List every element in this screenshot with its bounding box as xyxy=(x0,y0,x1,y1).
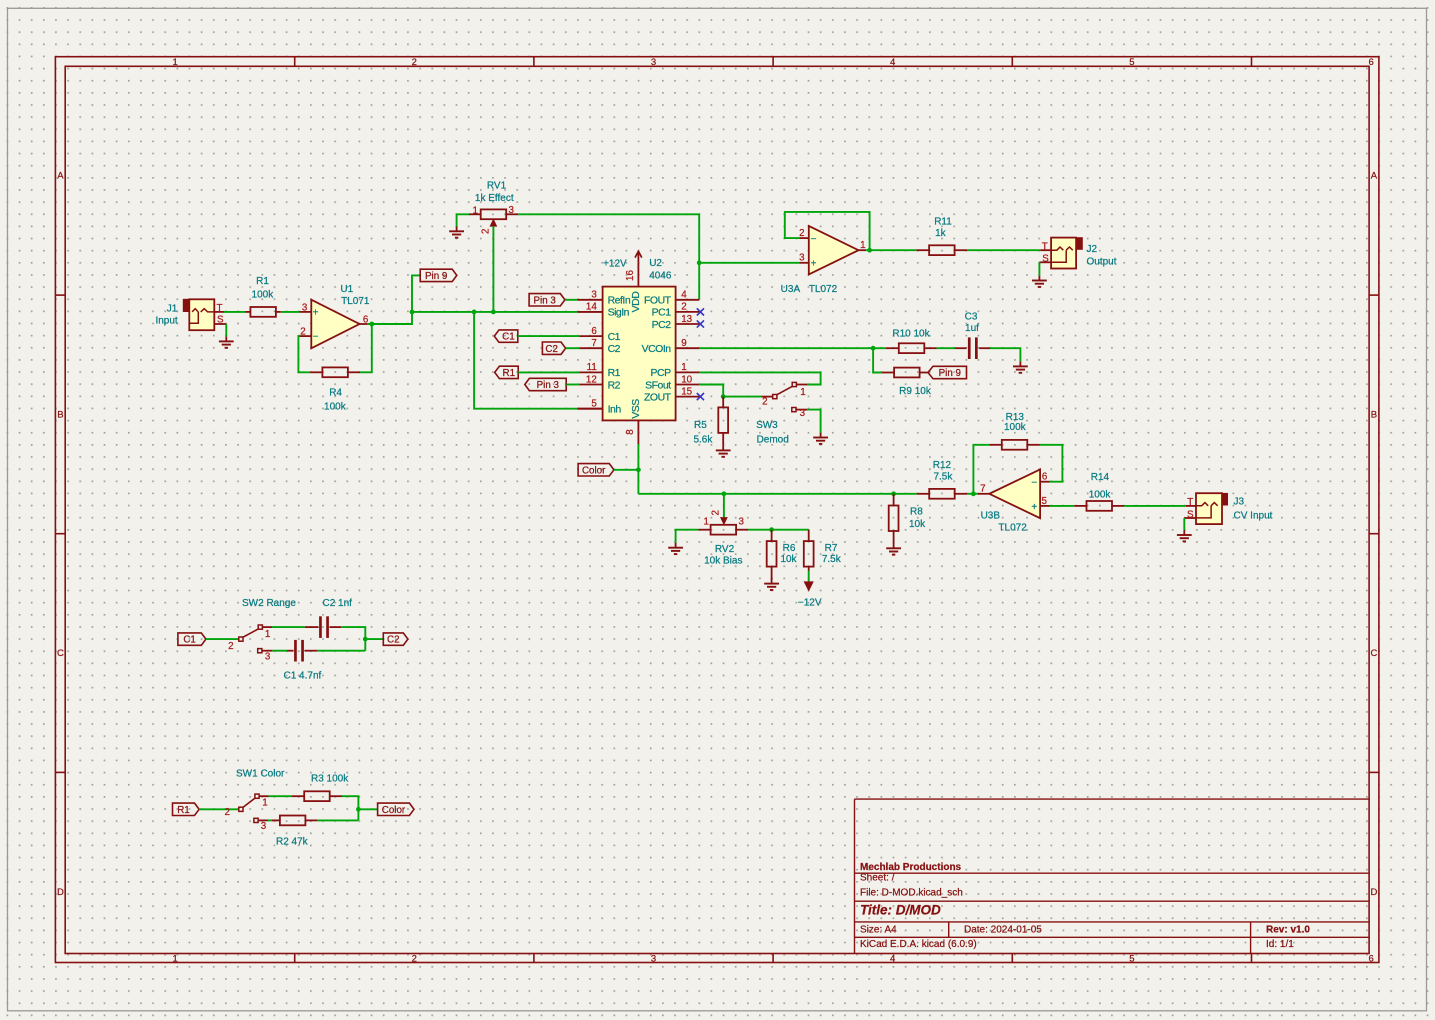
svg-text:1: 1 xyxy=(265,629,270,640)
svg-text:PC2: PC2 xyxy=(652,319,672,331)
svg-text:+: + xyxy=(313,307,319,318)
svg-text:−: − xyxy=(1031,478,1037,489)
svg-text:4046: 4046 xyxy=(649,270,672,281)
svg-text:1: 1 xyxy=(704,517,709,528)
svg-text:J2: J2 xyxy=(1087,244,1098,255)
svg-text:C1 4.7nf: C1 4.7nf xyxy=(284,671,322,682)
svg-text:Input: Input xyxy=(155,315,177,326)
svg-text:PCP: PCP xyxy=(651,367,672,379)
svg-text:D: D xyxy=(57,887,64,898)
svg-text:C3: C3 xyxy=(965,312,978,323)
svg-text:U2: U2 xyxy=(649,258,662,269)
svg-text:U3B: U3B xyxy=(981,511,1001,522)
svg-text:3: 3 xyxy=(302,302,308,313)
svg-text:Output: Output xyxy=(1087,256,1117,267)
svg-text:5.6k: 5.6k xyxy=(693,434,713,445)
svg-text:1uf: 1uf xyxy=(965,323,979,334)
svg-text:1: 1 xyxy=(172,57,177,68)
svg-text:C2 1nf: C2 1nf xyxy=(323,598,353,609)
svg-text:R12: R12 xyxy=(933,460,952,471)
svg-text:Id: 1/1: Id: 1/1 xyxy=(1266,939,1294,950)
svg-text:−: − xyxy=(313,332,319,343)
svg-text:C2: C2 xyxy=(608,343,621,355)
svg-text:C: C xyxy=(1370,648,1377,659)
svg-text:Mechlab Productions: Mechlab Productions xyxy=(860,862,962,873)
svg-text:2: 2 xyxy=(762,396,767,407)
svg-text:ZOUT: ZOUT xyxy=(644,391,672,403)
svg-text:+: + xyxy=(811,259,817,270)
svg-text:R14: R14 xyxy=(1091,472,1110,483)
svg-text:4: 4 xyxy=(890,57,895,68)
svg-text:3: 3 xyxy=(261,821,267,832)
svg-text:C: C xyxy=(57,648,64,659)
svg-text:R2: R2 xyxy=(608,379,621,391)
svg-text:10k: 10k xyxy=(909,519,926,530)
svg-text:100k: 100k xyxy=(324,401,347,412)
svg-text:4: 4 xyxy=(890,953,895,964)
svg-text:U1: U1 xyxy=(340,284,353,295)
svg-text:T: T xyxy=(1042,242,1048,253)
svg-text:S: S xyxy=(1187,509,1194,520)
svg-text:B: B xyxy=(1371,409,1377,420)
svg-text:T: T xyxy=(1187,497,1193,508)
svg-text:R1: R1 xyxy=(177,805,190,816)
svg-text:2: 2 xyxy=(480,229,491,234)
svg-text:7.5k: 7.5k xyxy=(933,472,953,483)
svg-text:16: 16 xyxy=(625,270,636,281)
svg-text:J3: J3 xyxy=(1234,497,1245,508)
svg-text:A: A xyxy=(57,171,64,182)
svg-text:3: 3 xyxy=(651,953,656,964)
svg-text:SW2 Range: SW2 Range xyxy=(242,598,296,609)
svg-text:TL072: TL072 xyxy=(998,523,1027,534)
svg-text:A: A xyxy=(1371,171,1378,182)
svg-text:3: 3 xyxy=(739,517,745,528)
svg-text:2: 2 xyxy=(799,228,804,239)
svg-text:KiCad E.D.A. kicad (6.0.9): KiCad E.D.A. kicad (6.0.9) xyxy=(860,939,977,950)
svg-text:S: S xyxy=(1042,254,1049,265)
svg-text:T: T xyxy=(217,303,223,314)
svg-text:S: S xyxy=(217,315,224,326)
svg-text:2: 2 xyxy=(710,510,721,515)
svg-text:2: 2 xyxy=(412,953,417,964)
svg-text:3: 3 xyxy=(509,205,515,216)
svg-text:VSS: VSS xyxy=(630,399,642,419)
svg-text:7.5k: 7.5k xyxy=(822,554,842,565)
svg-text:Date: 2024-01-05: Date: 2024-01-05 xyxy=(964,924,1042,935)
svg-text:File: D-MOD.kicad_sch: File: D-MOD.kicad_sch xyxy=(860,887,963,898)
svg-text:Pin 3: Pin 3 xyxy=(534,295,557,306)
svg-text:R3 100k: R3 100k xyxy=(311,773,349,784)
svg-text:TL071: TL071 xyxy=(341,296,370,307)
svg-text:R2 47k: R2 47k xyxy=(276,837,309,848)
svg-text:R7: R7 xyxy=(825,543,838,554)
svg-text:Color: Color xyxy=(382,805,406,816)
svg-text:Sheet: /: Sheet: / xyxy=(860,873,895,884)
svg-text:5: 5 xyxy=(1129,57,1134,68)
svg-text:Pin 9: Pin 9 xyxy=(939,368,961,379)
svg-text:CV Input: CV Input xyxy=(1234,510,1273,521)
svg-text:1k: 1k xyxy=(935,228,947,239)
svg-text:Pin 9: Pin 9 xyxy=(425,271,447,282)
svg-text:10k Bias: 10k Bias xyxy=(704,555,742,566)
svg-text:SW3: SW3 xyxy=(756,420,778,431)
svg-text:SW1 Color: SW1 Color xyxy=(236,769,285,780)
svg-text:Color: Color xyxy=(582,465,606,476)
svg-text:Rev: v1.0: Rev: v1.0 xyxy=(1266,924,1310,935)
svg-text:10k: 10k xyxy=(780,554,797,565)
svg-text:Size: A4: Size: A4 xyxy=(860,924,897,935)
svg-text:1: 1 xyxy=(172,953,177,964)
svg-text:100k: 100k xyxy=(1004,422,1027,433)
svg-text:RefIn: RefIn xyxy=(608,295,631,307)
svg-text:3: 3 xyxy=(800,408,806,419)
svg-text:7: 7 xyxy=(980,483,985,494)
svg-text:D: D xyxy=(1370,887,1377,898)
svg-text:VDD: VDD xyxy=(630,291,642,313)
svg-text:PC1: PC1 xyxy=(652,307,672,319)
svg-text:C2: C2 xyxy=(545,344,558,355)
svg-text:1: 1 xyxy=(800,387,805,398)
svg-text:100k: 100k xyxy=(252,289,275,300)
svg-text:VCOIn: VCOIn xyxy=(642,343,672,355)
svg-text:R1: R1 xyxy=(256,276,269,287)
svg-text:2: 2 xyxy=(228,641,233,652)
svg-text:Inh: Inh xyxy=(608,404,622,416)
svg-text:8: 8 xyxy=(625,429,636,435)
svg-text:R1: R1 xyxy=(608,367,621,379)
svg-text:Pin 3: Pin 3 xyxy=(537,380,560,391)
svg-text:R4: R4 xyxy=(329,387,342,398)
svg-text:SigIn: SigIn xyxy=(608,307,630,319)
svg-text:1: 1 xyxy=(473,205,478,216)
svg-text:SFout: SFout xyxy=(645,379,671,391)
svg-text:2: 2 xyxy=(224,807,229,818)
svg-text:3: 3 xyxy=(799,252,805,263)
svg-text:C2: C2 xyxy=(387,635,400,646)
svg-text:+: + xyxy=(1031,502,1037,513)
svg-text:2: 2 xyxy=(412,57,417,68)
svg-text:R8: R8 xyxy=(910,507,923,518)
svg-text:R10 10k: R10 10k xyxy=(892,329,930,340)
svg-text:RV2: RV2 xyxy=(715,544,735,555)
svg-text:1k Effect: 1k Effect xyxy=(475,193,514,204)
svg-text:RV1: RV1 xyxy=(487,181,507,192)
svg-text:TL072: TL072 xyxy=(809,284,838,295)
svg-text:R11: R11 xyxy=(934,216,952,227)
svg-text:1: 1 xyxy=(262,798,267,809)
svg-text:Demod: Demod xyxy=(757,434,789,445)
svg-text:C1: C1 xyxy=(183,635,196,646)
svg-text:C1: C1 xyxy=(608,331,621,343)
svg-text:J1: J1 xyxy=(167,304,178,315)
svg-text:6: 6 xyxy=(1368,57,1373,68)
svg-text:3: 3 xyxy=(265,652,271,663)
svg-text:−12V: −12V xyxy=(798,598,822,609)
svg-text:FOUT: FOUT xyxy=(644,295,672,307)
svg-text:−: − xyxy=(811,234,817,245)
svg-text:R5: R5 xyxy=(694,420,707,431)
svg-text:B: B xyxy=(57,409,63,420)
svg-text:+12V: +12V xyxy=(603,258,627,269)
svg-text:100k: 100k xyxy=(1089,489,1112,500)
svg-text:R1: R1 xyxy=(503,368,516,379)
svg-text:6: 6 xyxy=(1368,953,1373,964)
svg-text:3: 3 xyxy=(651,57,656,68)
svg-text:R6: R6 xyxy=(783,543,796,554)
svg-text:5: 5 xyxy=(1129,953,1134,964)
svg-text:R9 10k: R9 10k xyxy=(899,386,932,397)
svg-text:C1: C1 xyxy=(502,332,515,343)
svg-text:Title: D/MOD: Title: D/MOD xyxy=(860,903,941,918)
svg-text:U3A: U3A xyxy=(781,284,801,295)
